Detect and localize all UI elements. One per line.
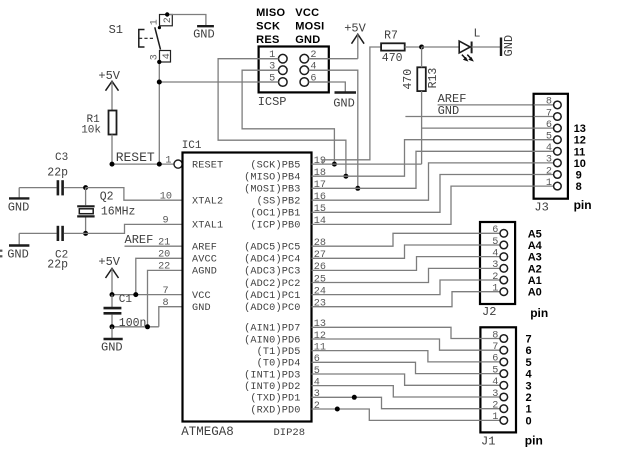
wire PB0 to J3 pin1 (8) (312, 186, 534, 224)
svg-text:8: 8 (162, 298, 168, 309)
wire PC0 to J2 pin1 (A0) (312, 292, 481, 307)
svg-text:8: 8 (546, 97, 552, 108)
svg-text:(ADC1)PC1: (ADC1)PC1 (244, 290, 300, 302)
svg-text:GND: GND (7, 248, 29, 262)
connector J1 pin 1 stub (480, 419, 500, 421)
connector J3 pin 4 stub (534, 150, 554, 152)
junction MOSI/PB3 (355, 186, 360, 191)
svg-text:J1: J1 (481, 435, 495, 449)
svg-text:2: 2 (526, 392, 532, 404)
svg-text:3: 3 (492, 389, 498, 400)
wire PD6 to J1 pin7 (312, 339, 481, 350)
svg-text:(T1)PD5: (T1)PD5 (257, 346, 301, 358)
svg-text:(SS)PB2: (SS)PB2 (257, 196, 301, 208)
svg-text:AGND: AGND (192, 267, 217, 278)
svg-text:A4: A4 (528, 240, 543, 252)
ICSP pin 6 circle (300, 78, 309, 87)
svg-text:6: 6 (526, 345, 532, 357)
svg-text:J3: J3 (534, 200, 548, 214)
svg-text:10: 10 (574, 158, 586, 170)
svg-text:3: 3 (269, 62, 275, 73)
svg-text:5: 5 (526, 357, 532, 369)
svg-text:R7: R7 (384, 30, 398, 43)
svg-text:(ADC3)PC3: (ADC3)PC3 (244, 266, 300, 278)
svg-text:16MHz: 16MHz (101, 205, 136, 218)
ICSP pin 1 stub (259, 58, 279, 60)
svg-text:9: 9 (576, 170, 582, 182)
svg-text:C3: C3 (55, 152, 68, 164)
connector J2 pin 4 stub (480, 256, 500, 258)
wire R1 to RESET net (111, 135, 113, 165)
svg-text:L: L (474, 28, 481, 41)
svg-text:AREF: AREF (192, 243, 217, 254)
connector J2 pin 1 stub (480, 291, 500, 293)
LED L emission arrow 2 (467, 55, 474, 62)
resistor R1 (109, 111, 117, 135)
junction SCK/PB5 (332, 162, 337, 167)
svg-text:ICSP: ICSP (258, 95, 287, 109)
junction C1/GND net (110, 324, 115, 329)
svg-text:1: 1 (546, 178, 552, 189)
svg-text:3: 3 (546, 155, 552, 166)
svg-text:6: 6 (546, 120, 552, 131)
connector J1 pin 6 stub (480, 361, 500, 363)
wire switch pin4 down to RESET net (158, 62, 160, 164)
wire AGND to pin 22 (148, 270, 183, 326)
svg-text:2: 2 (314, 401, 320, 412)
ICSP pin 6 stub (309, 81, 329, 83)
wire crystal bottom stub (85, 218, 87, 234)
power +5V symbol 2 arrow (352, 34, 365, 44)
svg-text:C1: C1 (119, 294, 133, 306)
resistor R13 (417, 67, 426, 91)
capacitor C2 plate A (57, 226, 60, 241)
svg-text:A3: A3 (528, 252, 542, 264)
junction dot on RXD wire (335, 407, 340, 412)
svg-text:Q2: Q2 (100, 190, 114, 203)
connector J1 pin 3 stub (480, 396, 500, 398)
wire PD2 to J1 pin3 (312, 386, 481, 397)
svg-text:7: 7 (526, 334, 532, 346)
svg-text:S1: S1 (109, 23, 123, 37)
wire PB5 net to R7 (323, 47, 381, 164)
connector J2 body (480, 222, 515, 304)
svg-text:GND: GND (295, 34, 320, 46)
wire AREF to J3 pin 8 (438, 104, 534, 106)
ICSP pin 4 circle (300, 66, 309, 75)
wire PB5 to J3 pin6 (13) (312, 163, 422, 165)
svg-text:21: 21 (158, 238, 170, 249)
svg-text:2: 2 (492, 401, 498, 412)
svg-text:19: 19 (314, 156, 326, 167)
svg-text:6: 6 (492, 225, 498, 236)
connector J2 pin 3 stub (480, 267, 500, 269)
svg-text:1: 1 (150, 19, 161, 25)
svg-text:5: 5 (269, 74, 275, 85)
svg-text:2: 2 (310, 50, 316, 61)
ICSP pin 2 stub (309, 58, 329, 60)
svg-text:(T0)PD4: (T0)PD4 (257, 358, 301, 370)
svg-text:5: 5 (492, 237, 498, 248)
svg-text:(INT1)PD3: (INT1)PD3 (244, 369, 300, 381)
capacitor C1 plate bottom (104, 312, 122, 315)
svg-text:DIP28: DIP28 (274, 427, 306, 439)
svg-text:8: 8 (576, 181, 582, 193)
clipped glyph fragment at left edge (0, 250, 2, 252)
svg-text:17: 17 (314, 180, 326, 191)
svg-text:GND: GND (193, 27, 215, 41)
ICSP pin 4 stub (309, 69, 329, 71)
capacitor C3 plate A (57, 180, 60, 195)
svg-text:A5: A5 (528, 228, 542, 240)
connector J2 pin 6 stub (480, 232, 500, 234)
wire PD1 to J1 pin2 (312, 397, 481, 408)
svg-text:28: 28 (314, 238, 326, 249)
connector J2 pin 4 circle (500, 253, 508, 261)
wire PD7 to J1 pin8 (312, 327, 481, 338)
junction LED node (419, 45, 424, 50)
ICSP pin 3 circle (279, 66, 288, 75)
svg-text:GND: GND (333, 96, 355, 110)
svg-text:R13: R13 (427, 68, 440, 89)
wire MOSI net (309, 70, 358, 188)
wire GND to C2 (19, 232, 56, 234)
svg-text:XTAL1: XTAL1 (192, 221, 223, 232)
wire PC3 to J2 pin4 (A3) (312, 257, 481, 271)
wire PC2 to J2 pin3 (A2) (312, 268, 481, 282)
connector J1 pin 4 stub (480, 384, 500, 386)
svg-text:16: 16 (314, 192, 326, 203)
connector J2 pin 5 circle (500, 241, 508, 249)
ground G3 stub (18, 233, 20, 245)
svg-text:22: 22 (158, 262, 170, 273)
connector J1 pin 5 stub (480, 373, 500, 375)
wire RES net (159, 81, 278, 83)
svg-text:5: 5 (314, 366, 320, 377)
ground G2 (C3) (9, 197, 29, 199)
svg-text:1: 1 (492, 284, 498, 295)
power +5V symbol 1 arrow (106, 81, 119, 90)
wire C1 to GND net (111, 314, 113, 326)
svg-text:pin: pin (525, 434, 543, 448)
connector J3 pin 5 stub (534, 139, 554, 141)
capacitor C2 plate B (61, 226, 64, 241)
svg-text:5: 5 (492, 365, 498, 376)
wire PB4 to J3 pin5 (12) (312, 140, 534, 177)
connector J3 pin 1 circle (554, 182, 562, 190)
svg-text:12: 12 (314, 331, 326, 342)
svg-text:100n: 100n (119, 317, 147, 330)
svg-text:20: 20 (158, 250, 170, 261)
svg-text:4: 4 (314, 377, 320, 388)
svg-text:470: 470 (382, 52, 403, 65)
svg-text:18: 18 (314, 168, 326, 179)
connector J3 pin 4 circle (554, 148, 562, 156)
wire GND to C3 (19, 187, 56, 189)
wire PB1 to J3 pin2 (9) (312, 175, 534, 213)
svg-text:SCK: SCK (256, 20, 280, 32)
connector J3 pin 2 stub (534, 174, 554, 176)
wire PB3 to J3 pin4 (11) (312, 151, 534, 188)
svg-text:10k: 10k (81, 124, 101, 136)
wire PD4 to J1 pin5 (312, 362, 481, 373)
wire +5V2 stem (357, 34, 359, 59)
junction switch/RESET (157, 162, 162, 167)
svg-text:XTAL2: XTAL2 (192, 197, 223, 208)
junction dot on TXD wire (352, 395, 357, 400)
connector J1 pin 3 circle (500, 393, 508, 401)
svg-text:MOSI: MOSI (295, 20, 324, 32)
connector J3 pin 5 circle (554, 136, 562, 144)
connector J2 pin 1 circle (500, 288, 508, 296)
wire AVCC to pin 20 (136, 258, 183, 294)
svg-text:2: 2 (163, 17, 174, 23)
svg-text:(OC1)PB1: (OC1)PB1 (250, 208, 300, 220)
power +5V symbol 3 arrow (106, 269, 119, 279)
switch S1 lever (155, 27, 161, 49)
svg-text:(ADC5)PC5: (ADC5)PC5 (244, 242, 300, 254)
ICSP header body (259, 47, 329, 93)
svg-text:(TXD)PD1: (TXD)PD1 (250, 393, 300, 405)
svg-text:GND: GND (8, 201, 30, 215)
wire LED node to LED (422, 46, 460, 48)
svg-text:1: 1 (165, 155, 171, 166)
svg-text:4: 4 (310, 62, 316, 73)
connector J3 pin 3 stub (534, 162, 554, 164)
connector J2 pin 5 stub (480, 244, 500, 246)
wire crystal bottom to XTAL1 (86, 224, 183, 233)
svg-text:(SCK)PB5: (SCK)PB5 (250, 159, 300, 171)
connector J3 body (534, 94, 568, 199)
svg-text:10: 10 (160, 191, 172, 202)
connector J2 pin 2 circle (500, 276, 508, 284)
svg-text:ATMEGA8: ATMEGA8 (181, 425, 234, 439)
ICSP pin 5 circle (279, 78, 288, 87)
ground G4 stub (111, 327, 113, 339)
wire crystal top stub (85, 188, 87, 206)
wire PB2 to J3 pin3 (10) (312, 163, 534, 200)
svg-text:14: 14 (314, 216, 326, 227)
svg-text:3: 3 (314, 389, 320, 400)
svg-text:GND: GND (192, 303, 211, 314)
IC1 ATMEGA8 body (183, 153, 312, 422)
connector J3 pin 3 circle (554, 159, 562, 167)
svg-text:24: 24 (314, 286, 326, 297)
svg-text:(MOSI)PB3: (MOSI)PB3 (244, 184, 300, 196)
connector J1 body (480, 327, 516, 432)
svg-text:+5V: +5V (98, 69, 120, 83)
svg-text:(ADC4)PC4: (ADC4)PC4 (244, 254, 300, 266)
wire switch pin2 to GND (166, 15, 206, 27)
svg-text:GND: GND (502, 35, 516, 57)
junction AVCC/VCC (133, 292, 138, 297)
wire +5V3 to VCC net (111, 269, 113, 295)
svg-text:4: 4 (526, 369, 533, 381)
svg-text:12: 12 (574, 135, 586, 147)
connector J3 pin 7 stub (534, 116, 554, 118)
svg-text:VCC: VCC (295, 7, 319, 19)
connector J3 pin 1 stub (534, 185, 554, 187)
ground G1 (switch) (197, 25, 214, 27)
wire C2 to crystal node (64, 232, 86, 234)
svg-text:470: 470 (402, 69, 415, 90)
connector J1 pin 6 circle (500, 358, 508, 366)
svg-text:2: 2 (546, 166, 552, 177)
svg-text:AVCC: AVCC (192, 255, 217, 266)
svg-text:1: 1 (269, 50, 275, 61)
svg-text:(AIN0)PD6: (AIN0)PD6 (244, 334, 300, 346)
connector J1 pin 8 stub (480, 338, 500, 340)
switch S1 contact box pin4 (160, 51, 171, 63)
LED L cathode bar (471, 42, 473, 54)
wire ICSP GND (309, 82, 346, 92)
ground G5 (ICSP) (335, 91, 357, 93)
svg-text:11: 11 (314, 342, 326, 353)
svg-text:3: 3 (150, 54, 161, 60)
svg-text:IC1: IC1 (182, 140, 202, 152)
svg-text:(ADC0)PC0: (ADC0)PC0 (244, 302, 300, 314)
connector J3 pin 6 circle (554, 124, 562, 132)
connector J3 pin 8 stub (534, 104, 554, 106)
svg-text:(MISO)PB4: (MISO)PB4 (244, 172, 300, 184)
svg-text:J2: J2 (482, 305, 496, 319)
connector J1 pin 7 stub (480, 349, 500, 351)
svg-text:RESET: RESET (116, 150, 155, 165)
wire +5V to R1 (111, 81, 113, 110)
svg-text:(INT0)PD2: (INT0)PD2 (244, 381, 300, 393)
svg-text:MISO: MISO (256, 7, 285, 19)
connector J2 pin 3 circle (500, 265, 508, 273)
capacitor C1 plate top (104, 307, 122, 310)
connector J1 pin 8 circle (500, 335, 508, 343)
svg-text:4: 4 (546, 143, 552, 154)
wire MISO net (218, 59, 346, 177)
svg-text:1: 1 (492, 412, 498, 423)
crystal Q2 plate bottom (77, 215, 94, 217)
svg-text:25: 25 (314, 274, 326, 285)
switch S1 contact box pin2 (160, 15, 173, 26)
wire crystal top to XTAL2 (86, 188, 183, 201)
junction crystal top (83, 185, 88, 190)
svg-text:7: 7 (546, 108, 552, 119)
wire SCK net (242, 70, 334, 164)
wire GND net horizontal (112, 326, 159, 328)
connector J1 pin 1 circle (500, 417, 508, 425)
svg-text:GND: GND (101, 341, 123, 355)
svg-text:pin: pin (574, 198, 592, 212)
svg-text:4: 4 (492, 377, 498, 388)
wire VCC net to +5V (309, 58, 358, 60)
switch S1 lever pivot dot (158, 26, 161, 29)
wire RESET net (112, 163, 174, 165)
wire VCC net to pin 7 (112, 294, 183, 296)
svg-text:26: 26 (314, 262, 326, 273)
svg-text:+5V: +5V (344, 22, 366, 36)
ICSP pin 2 circle (300, 54, 309, 63)
svg-text:8: 8 (492, 330, 498, 341)
switch S1 actuator dashed link (139, 37, 154, 39)
svg-text:22p: 22p (47, 166, 68, 179)
wire LED node through R13 (421, 47, 423, 67)
ground G4 (C1) (104, 338, 123, 340)
svg-text:1: 1 (526, 404, 532, 416)
wire R7 to LED node (405, 46, 422, 48)
wire PD5 to J1 pin6 (312, 351, 481, 362)
svg-text:7: 7 (162, 286, 168, 297)
connector J2 pin 6 circle (500, 230, 508, 238)
svg-text:AREF: AREF (125, 233, 154, 247)
svg-text:RES: RES (256, 34, 280, 46)
connector J1 pin 2 circle (500, 405, 508, 413)
svg-text:13: 13 (314, 319, 326, 330)
svg-text:7: 7 (492, 342, 498, 353)
connector J3 pin 8 circle (554, 101, 562, 109)
connector J3 pin 6 stub (534, 127, 554, 129)
IC1 pin 1 inversion bubble (174, 160, 182, 168)
wire PC5 to J2 pin6 (A5) (312, 233, 481, 246)
svg-text:(ADC2)PC2: (ADC2)PC2 (244, 278, 300, 290)
ground G6 (LED) bar (500, 38, 502, 57)
svg-text:(ICP)PB0: (ICP)PB0 (250, 220, 300, 232)
wire AREF to pin 21 (125, 245, 183, 247)
ICSP pin 5 stub (259, 81, 279, 83)
wire LED to GND (472, 46, 501, 48)
svg-text:A0: A0 (528, 287, 542, 299)
connector J2 pin 2 stub (480, 279, 500, 281)
connector J3 pin 7 circle (554, 113, 562, 121)
svg-text:RESET: RESET (192, 160, 223, 171)
LED L triangle (459, 41, 470, 53)
ICSP pin 1 circle (279, 54, 288, 63)
svg-text:23: 23 (314, 299, 326, 310)
ground G2 stub (18, 188, 20, 199)
svg-text:3: 3 (526, 380, 532, 392)
svg-text:9: 9 (162, 216, 168, 227)
svg-text:VCC: VCC (192, 291, 211, 302)
svg-text:11: 11 (574, 146, 586, 158)
svg-text:15: 15 (314, 204, 326, 215)
svg-text:+5V: +5V (98, 255, 120, 269)
svg-text:27: 27 (314, 250, 326, 261)
junction switch pin2 wire (165, 12, 169, 16)
svg-text:(AIN1)PD7: (AIN1)PD7 (244, 323, 300, 335)
connector J1 pin 5 circle (500, 370, 508, 378)
ground G3 (C2) (9, 244, 29, 246)
svg-text:6: 6 (310, 74, 316, 85)
svg-text:6: 6 (492, 354, 498, 365)
wire VCC to C1 (111, 295, 113, 307)
connector J1 pin 7 circle (500, 346, 508, 354)
wire PC1 to J2 pin2 (A1) (312, 280, 481, 295)
svg-text:A2: A2 (528, 263, 542, 275)
junction crystal bottom (83, 231, 88, 236)
connector J3 pin 2 circle (554, 171, 562, 179)
switch S1 actuator bracket (139, 30, 145, 48)
wire GND net to pin 8 (159, 307, 183, 327)
svg-text:2: 2 (492, 272, 498, 283)
svg-text:22p: 22p (47, 259, 68, 272)
wire R13 net to J3 pin6 (422, 127, 534, 129)
junction +5V/VCC (110, 292, 115, 297)
junction R1/RESET (110, 162, 115, 167)
crystal Q2 body (79, 209, 93, 214)
crystal Q2 plate top (77, 205, 94, 207)
wire R13 to pin13 net (421, 91, 423, 164)
connector J1 pin 2 stub (480, 408, 500, 410)
wire PD0 to J1 pin1 (312, 409, 481, 420)
ICSP pin 3 stub (259, 69, 279, 71)
svg-text:4: 4 (492, 248, 498, 259)
